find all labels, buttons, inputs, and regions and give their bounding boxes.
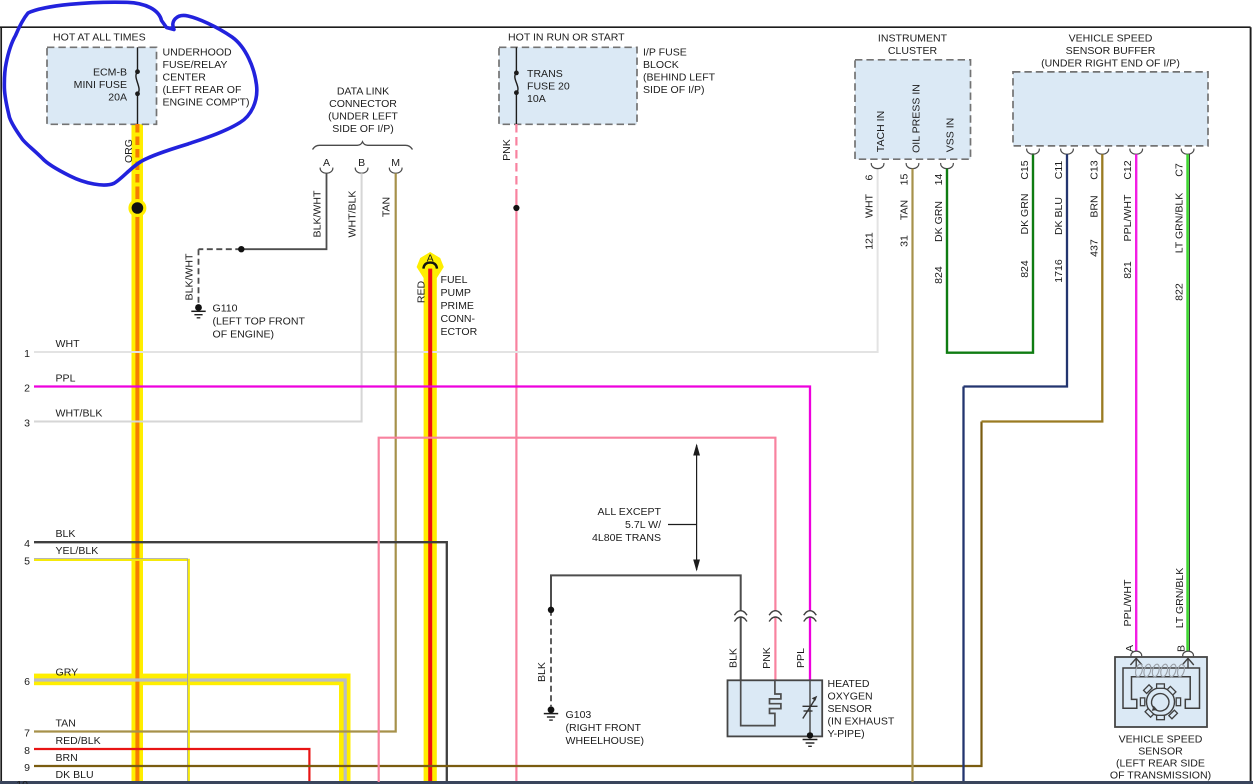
svg-text:C12: C12 (1122, 160, 1134, 179)
svg-text:PNK: PNK (501, 139, 513, 161)
heated oxygen sensor U1 box (728, 678, 895, 740)
svg-text:VSS IN: VSS IN (944, 118, 956, 153)
svg-text:FUSE/RELAY: FUSE/RELAY (163, 59, 228, 71)
svg-text:M: M (391, 157, 400, 169)
svg-text:8: 8 (24, 745, 30, 757)
svg-text:SENSOR: SENSOR (1138, 746, 1183, 758)
svg-text:1: 1 (24, 348, 30, 360)
svg-text:1716: 1716 (1053, 259, 1065, 283)
line 6 wire GRY (24, 667, 345, 783)
svg-text:TACH IN: TACH IN (875, 111, 887, 152)
VSS terminal A (1124, 644, 1142, 656)
svg-text:C7: C7 (1173, 163, 1185, 177)
VSS pickup coil (1134, 663, 1185, 677)
svg-text:SIDE OF I/P): SIDE OF I/P) (643, 84, 705, 96)
svg-text:DK GRN: DK GRN (933, 201, 945, 242)
data link connector label and brace (313, 86, 413, 150)
VSS terminal B (1176, 645, 1194, 656)
svg-text:WHT/BLK: WHT/BLK (56, 408, 103, 420)
svg-text:FUSE 20: FUSE 20 (527, 80, 570, 92)
HO2S sensing element (variable) (803, 680, 818, 735)
svg-text:LT GRN/BLK: LT GRN/BLK (1174, 568, 1186, 629)
line 8 wire RED/BLK (24, 735, 309, 782)
line 10 wire DK BLU (0, 387, 1253, 784)
svg-text:BRN: BRN (56, 752, 78, 764)
svg-text:C15: C15 (1019, 160, 1031, 179)
svg-text:SENSOR: SENSOR (828, 703, 873, 715)
wire 824 DK GRN U-link cluster 14 to VSSB C15 (933, 153, 1033, 352)
vehicle speed sensor box (1110, 657, 1211, 782)
wire BLK/WHT from DLC A (183, 173, 326, 304)
svg-text:31: 31 (899, 235, 911, 247)
wire PNK branch to HO2S (379, 438, 776, 782)
svg-text:INSTRUMENT: INSTRUMENT (878, 33, 948, 45)
VSS reluctor gear (1140, 684, 1180, 720)
ground G110 (191, 302, 305, 340)
svg-text:YEL/BLK: YEL/BLK (56, 545, 99, 557)
svg-text:LT GRN/BLK: LT GRN/BLK (1173, 193, 1185, 254)
splice dot on PNK wire (513, 205, 519, 211)
svg-text:OIL PRESS IN: OIL PRESS IN (911, 84, 923, 153)
instrument cluster box (855, 33, 971, 160)
splice dot on ORG wire (128, 199, 146, 217)
svg-text:SENSOR BUFFER: SENSOR BUFFER (1066, 45, 1156, 57)
svg-text:121: 121 (864, 232, 876, 250)
wire 121 WHT labels (864, 193, 876, 249)
svg-text:14: 14 (933, 174, 945, 186)
HO2S ground (803, 732, 818, 746)
svg-text:A: A (323, 157, 331, 169)
svg-text:WHT/BLK: WHT/BLK (347, 191, 359, 238)
svg-text:BLK: BLK (56, 528, 76, 540)
VSSB terminal C15 (1019, 149, 1039, 278)
svg-text:4: 4 (24, 538, 30, 550)
svg-text:WHEELHOUSE): WHEELHOUSE) (566, 735, 645, 747)
svg-text:TAN: TAN (56, 718, 76, 730)
svg-text:DK GRN: DK GRN (1019, 193, 1031, 234)
VSS stator core bracket (1123, 668, 1200, 708)
svg-text:6: 6 (864, 174, 876, 180)
svg-text:GRY: GRY (56, 667, 79, 679)
VSSB terminal C13 and wire 437 BRN (982, 149, 1109, 422)
splice dot on BLK dashed wire (548, 607, 554, 613)
inline connector chevrons on BLK wire (734, 611, 747, 622)
wire GRY highlight band (line 6) (34, 674, 351, 782)
HO2S heater element (741, 680, 781, 725)
svg-text:CONNECTOR: CONNECTOR (329, 98, 397, 110)
svg-text:PPL/WHT: PPL/WHT (1122, 194, 1134, 241)
cluster terminal 15 (899, 163, 919, 185)
svg-text:TAN: TAN (381, 197, 393, 217)
svg-text:G110: G110 (213, 302, 238, 314)
svg-text:MINI FUSE: MINI FUSE (74, 79, 127, 91)
svg-text:CLUSTER: CLUSTER (888, 45, 938, 57)
svg-text:UNDERHOOD: UNDERHOOD (163, 47, 233, 59)
svg-text:RED: RED (416, 280, 428, 303)
wire TAN from DLC M to line 7 (24, 173, 396, 739)
svg-text:3: 3 (24, 417, 30, 429)
svg-text:10: 10 (16, 779, 28, 784)
wire WHT/BLK from DLC B to line 3 (24, 173, 361, 429)
vehicle speed sensor buffer box (1013, 33, 1208, 146)
svg-text:4L80E TRANS: 4L80E TRANS (592, 532, 661, 544)
svg-text:PRIME: PRIME (441, 300, 474, 312)
fuse ECM-B MINI FUSE 20A (135, 47, 140, 124)
svg-text:ECM-B: ECM-B (93, 66, 127, 78)
fuel pump prime connector terminal A (423, 252, 477, 338)
svg-text:BLK/WHT: BLK/WHT (183, 253, 195, 300)
svg-text:DK BLU: DK BLU (56, 769, 94, 781)
svg-text:I/P FUSE: I/P FUSE (643, 47, 687, 59)
svg-text:PPL: PPL (56, 373, 76, 385)
underhood fuse/relay center box (47, 31, 249, 124)
svg-text:Y-PIPE): Y-PIPE) (828, 728, 865, 740)
svg-text:(LEFT REAR OF: (LEFT REAR OF (163, 84, 242, 96)
VSSB terminal C11 and wire 1716 DK BLU (964, 149, 1074, 387)
svg-text:DATA LINK: DATA LINK (337, 86, 389, 98)
wire RED highlight band (fuel pump prime) (417, 252, 444, 782)
svg-text:(LEFT TOP FRONT: (LEFT TOP FRONT (213, 315, 306, 327)
svg-text:20A: 20A (108, 91, 128, 103)
wire ORG highlight band (132, 124, 144, 782)
svg-text:WHT: WHT (56, 338, 81, 350)
svg-text:5: 5 (24, 556, 30, 568)
svg-text:DK BLU: DK BLU (1053, 197, 1065, 235)
svg-text:HOT AT ALL TIMES: HOT AT ALL TIMES (53, 31, 146, 43)
svg-text:822: 822 (1173, 283, 1185, 301)
VSSB terminal C12 and wire 821 PPL/WHT (1122, 149, 1142, 651)
svg-text:824: 824 (933, 266, 945, 284)
VSS internal arrows (1130, 658, 1193, 668)
svg-text:BLK: BLK (536, 662, 548, 682)
line 2 wire PPL (24, 373, 810, 681)
svg-text:(BEHIND LEFT: (BEHIND LEFT (643, 72, 716, 84)
svg-text:437: 437 (1088, 239, 1100, 257)
svg-text:ALL EXCEPT: ALL EXCEPT (597, 506, 661, 518)
svg-text:PUMP: PUMP (441, 287, 471, 299)
inline connector chevrons on PNK wire (769, 611, 782, 622)
svg-text:FUEL: FUEL (441, 274, 468, 286)
svg-text:ECTOR: ECTOR (441, 326, 478, 338)
svg-text:OF ENGINE): OF ENGINE) (213, 328, 275, 340)
svg-text:15: 15 (899, 174, 911, 186)
svg-text:824: 824 (1019, 260, 1031, 278)
wire labels BLK PNK PPL at HO2S (727, 647, 807, 669)
svg-text:PPL: PPL (795, 648, 807, 668)
DLC terminal B (355, 157, 368, 173)
svg-text:G103: G103 (566, 709, 592, 721)
inline connector chevrons on PPL wire (804, 611, 817, 622)
svg-text:CENTER: CENTER (163, 72, 207, 84)
svg-text:2: 2 (24, 382, 30, 394)
svg-text:C11: C11 (1053, 161, 1065, 180)
DLC terminal A (320, 157, 333, 173)
svg-text:BLK/WHT: BLK/WHT (312, 190, 324, 237)
DLC terminal M (389, 157, 402, 173)
fuse TRANS FUSE 20 10A (514, 47, 519, 124)
cluster terminal 6 (864, 163, 884, 180)
svg-text:5.7L W/: 5.7L W/ (625, 519, 661, 531)
svg-text:9: 9 (24, 762, 30, 774)
annotation ALL EXCEPT 5.7L W/ 4L80E TRANS with double arrow (592, 444, 700, 572)
svg-text:(LEFT REAR SIDE: (LEFT REAR SIDE (1116, 758, 1205, 770)
svg-text:(RIGHT FRONT: (RIGHT FRONT (566, 722, 642, 734)
wire 31 TAN from cluster 15 (899, 169, 913, 782)
svg-text:TRANS: TRANS (527, 68, 563, 80)
svg-text:VEHICLE SPEED: VEHICLE SPEED (1069, 33, 1153, 45)
line 5 wire YEL/BLK (24, 545, 189, 782)
svg-text:ENGINE COMP'T): ENGINE COMP'T) (163, 97, 250, 109)
svg-text:OXYGEN: OXYGEN (828, 691, 873, 703)
ground G103 (544, 706, 644, 747)
svg-text:B: B (358, 157, 365, 169)
svg-text:10A: 10A (527, 93, 547, 105)
svg-text:BRN: BRN (1088, 195, 1100, 217)
svg-text:7: 7 (24, 727, 30, 739)
svg-text:RED/BLK: RED/BLK (56, 735, 101, 747)
svg-text:6: 6 (24, 676, 30, 688)
svg-text:ORG: ORG (123, 139, 135, 163)
cluster terminal 14 (933, 163, 953, 185)
svg-text:(UNDER RIGHT END OF I/P): (UNDER RIGHT END OF I/P) (1041, 58, 1180, 70)
svg-text:(IN EXHAUST: (IN EXHAUST (828, 716, 895, 728)
line 1 wire WHT (24, 168, 877, 360)
svg-text:VEHICLE SPEED: VEHICLE SPEED (1119, 734, 1203, 746)
splice dot on BLK/WHT (238, 246, 244, 252)
svg-text:OF TRANSMISSION): OF TRANSMISSION) (1110, 770, 1211, 782)
svg-text:HEATED: HEATED (828, 678, 870, 690)
svg-text:821: 821 (1122, 261, 1134, 279)
VSSB terminal C7 and wire 822 LT GRN/BLK (1173, 149, 1194, 651)
svg-text:BLK: BLK (727, 648, 739, 668)
svg-text:TAN: TAN (899, 200, 911, 220)
svg-text:HOT IN RUN OR START: HOT IN RUN OR START (508, 31, 625, 43)
svg-text:CONN-: CONN- (441, 313, 476, 325)
svg-text:PNK: PNK (761, 647, 773, 669)
svg-text:SIDE OF I/P): SIDE OF I/P) (332, 123, 394, 135)
wire PNK from TRANS fuse (dashed then solid) (501, 124, 517, 782)
wire ORG (dashed then solid) (123, 124, 137, 782)
line 4 wire BLK (24, 528, 447, 782)
svg-text:BLOCK: BLOCK (643, 59, 679, 71)
wire RED from fuel pump prime connector (416, 269, 431, 782)
svg-text:C13: C13 (1088, 160, 1100, 179)
line 9 wire BRN (24, 422, 981, 774)
I/P fuse block box (499, 31, 716, 124)
annotation hand-drawn blue circle (4, 2, 256, 185)
svg-text:WHT: WHT (864, 193, 876, 218)
svg-text:PPL/WHT: PPL/WHT (1122, 579, 1134, 626)
wire BLK net to G103 and HO2S (536, 575, 741, 706)
svg-text:(UNDER LEFT: (UNDER LEFT (328, 111, 398, 123)
